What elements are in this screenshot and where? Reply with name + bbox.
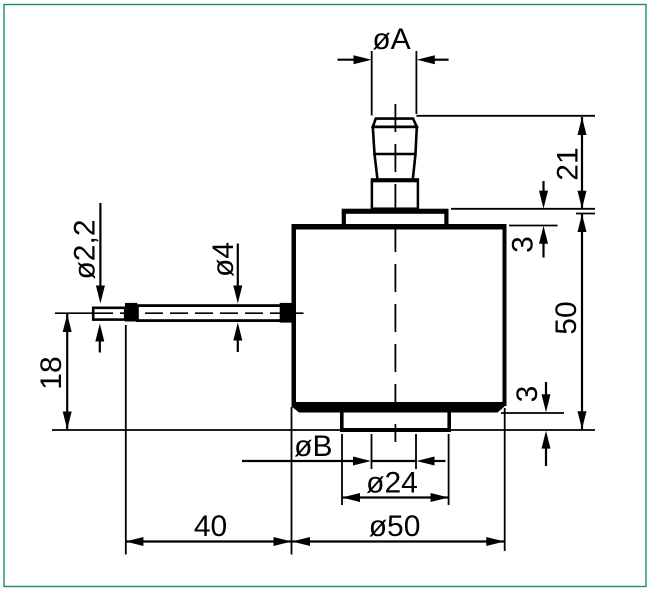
stud neck	[375, 154, 416, 180]
body	[292, 224, 507, 413]
dimension 40	[125, 510, 291, 546]
svg-text:ø50: ø50	[369, 510, 421, 543]
svg-text:3: 3	[507, 236, 540, 253]
vertical centerline	[394, 104, 396, 442]
extension line boss top to right	[451, 208, 595, 210]
svg-text:ø2,2: ø2,2	[69, 219, 102, 279]
extension line ø24 left	[341, 434, 343, 505]
rod centerline	[55, 312, 304, 314]
dimension 18	[35, 314, 72, 430]
dimension ø50	[292, 510, 505, 546]
extension line stud top to right	[416, 115, 595, 117]
dimension ø4	[207, 242, 242, 352]
dimension 3 bottom	[501, 382, 564, 466]
dimension ø2,2	[69, 203, 105, 353]
svg-text:øA: øA	[372, 23, 410, 56]
rod tip (ø2,2)	[93, 308, 125, 320]
dimension øB	[242, 430, 446, 466]
extension line body left down	[291, 407, 293, 555]
svg-text:18: 18	[35, 356, 68, 389]
stud upper section	[373, 127, 417, 154]
svg-text:40: 40	[194, 510, 227, 543]
long extension line under body	[52, 429, 595, 431]
extension line øB right	[415, 434, 417, 469]
stud cap	[373, 119, 417, 127]
svg-text:øB: øB	[294, 430, 332, 463]
rod clamp block right	[280, 303, 292, 323]
svg-text:50: 50	[550, 301, 583, 334]
svg-text:ø24: ø24	[366, 467, 418, 500]
svg-text:ø4: ø4	[207, 242, 240, 277]
extension line øB left	[371, 434, 373, 469]
dimension 50	[550, 214, 595, 430]
svg-text:3: 3	[511, 386, 544, 403]
dimension 3 top	[507, 181, 558, 258]
extension line body right down	[504, 408, 506, 551]
dimension 21	[552, 117, 587, 209]
stud base block	[372, 178, 418, 208]
rod (ø4)	[137, 306, 291, 321]
rod clamp block left	[125, 303, 137, 322]
dimension ø24	[342, 467, 449, 503]
top boss	[342, 209, 449, 225]
dimension øA	[338, 23, 449, 116]
extension line ø24 right	[448, 434, 450, 505]
bottom boss	[340, 411, 451, 432]
extension line rod end down	[125, 325, 127, 555]
svg-text:21: 21	[552, 147, 585, 180]
